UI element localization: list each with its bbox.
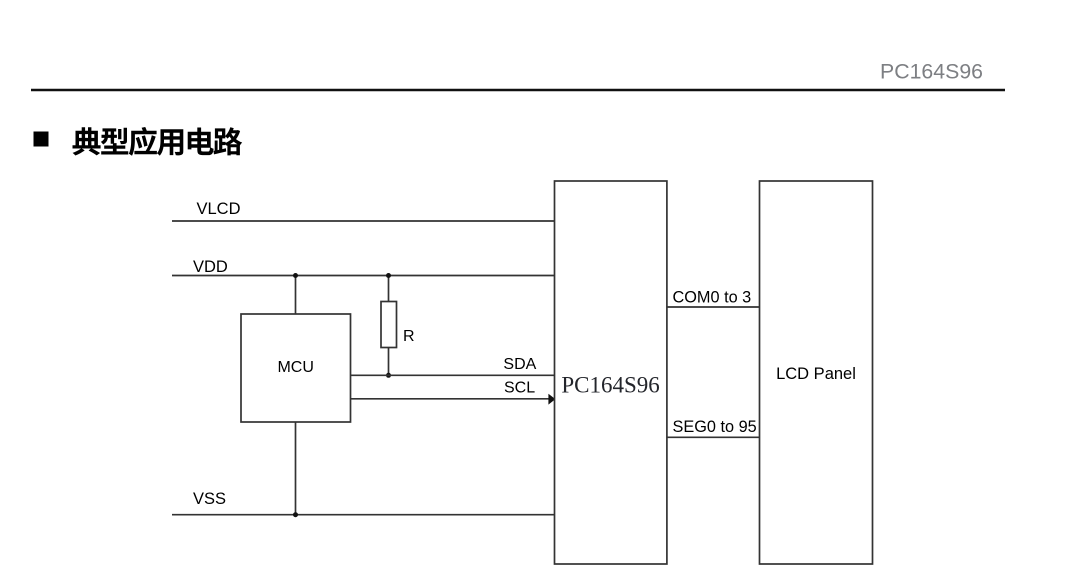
- driver U2 PC164S96 box: [555, 181, 667, 564]
- junction dot SDA/R: [386, 373, 391, 378]
- wire COM0 to 3 bus: [667, 306, 760, 308]
- resistor R top lead: [388, 276, 390, 302]
- arrowhead SCL into U2: [548, 394, 555, 405]
- svg-text:PC164S96: PC164S96: [880, 60, 983, 84]
- wire SEG0 to 95 bus: [667, 436, 760, 438]
- svg-text:MCU: MCU: [277, 359, 313, 376]
- svg-text:VLCD: VLCD: [197, 200, 241, 218]
- section bullet square: [34, 132, 49, 147]
- resistor R bottom lead: [388, 348, 390, 376]
- wire VLCD net: [172, 220, 555, 222]
- LCD Panel box: [760, 181, 873, 564]
- svg-text:SCL: SCL: [504, 380, 535, 397]
- wire MCU bottom to VSS: [295, 422, 297, 515]
- MCU U1 box: [241, 314, 351, 422]
- section title 典型应用电路: [73, 127, 243, 156]
- svg-text:R: R: [403, 328, 415, 345]
- resistor R body: [381, 302, 397, 348]
- page header rule: [31, 89, 1005, 92]
- wire VDD to MCU top: [295, 276, 297, 315]
- svg-text:SEG0 to 95: SEG0 to 95: [673, 418, 757, 436]
- svg-text:VSS: VSS: [193, 490, 226, 508]
- svg-text:SDA: SDA: [503, 356, 536, 373]
- junction dot VDD/R: [386, 273, 391, 278]
- svg-text:VDD: VDD: [193, 258, 228, 276]
- svg-text:PC164S96: PC164S96: [561, 373, 659, 398]
- wire VSS net: [172, 514, 555, 516]
- svg-text:LCD Panel: LCD Panel: [776, 365, 856, 383]
- wire SCL net: [351, 398, 551, 400]
- wire VDD net: [172, 275, 555, 277]
- svg-text:COM0 to 3: COM0 to 3: [673, 289, 752, 307]
- wire SDA net: [351, 374, 556, 376]
- junction dot VDD/MCU: [293, 273, 298, 278]
- junction dot VSS/MCU: [293, 512, 298, 517]
